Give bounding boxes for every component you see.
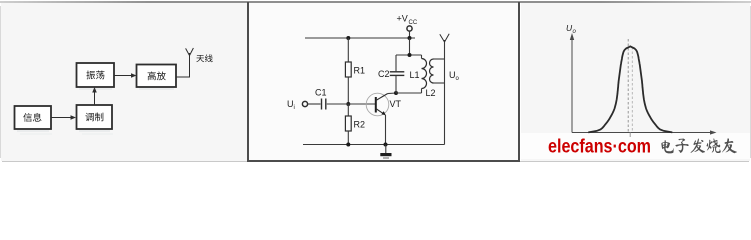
right panel background [521,2,750,161]
x axis [572,130,717,134]
arrow 振荡 to 高放 [114,73,137,78]
outer frame top border [0,1,751,3]
wire 高放 to antenna [176,53,190,77]
svg-text:C2: C2 [378,69,390,79]
outer frame left border [0,6,1,158]
wire Vcc rail to tank [409,38,411,55]
svg-text:VT: VT [390,99,402,109]
capacitor C1 [315,88,327,110]
watermark strip background [521,133,750,159]
svg-text:L2: L2 [426,88,436,98]
wire L2 top to antenna line [434,58,445,60]
tank bottom wire [396,92,422,94]
left panel background [1,2,247,161]
divider between middle and right panel [518,2,520,161]
inductor L2 [426,59,436,98]
svg-text:L1: L1 [410,70,420,80]
terminal +Vcc [407,26,412,31]
dashed marker line left [627,39,629,133]
label Ui [287,99,295,111]
block 振荡 [77,63,115,87]
resistor R2 [345,116,365,131]
block 信息 [15,106,52,129]
junction dot rail/emitter [384,143,388,147]
block 高放 [137,65,177,88]
middle panel background [249,2,518,161]
wire C2 to collector node [395,76,397,93]
wire Ui to C1 [308,103,321,105]
block 调制 [77,105,113,129]
svg-text:CC: CC [409,20,418,26]
transistor VT [366,93,401,116]
node tank top [408,53,412,57]
node base junction [346,102,350,106]
wire C1 to base node [327,103,349,105]
outer frame bottom border [2,161,749,162]
svg-text:+V: +V [397,14,408,24]
y axis [570,33,574,133]
ground symbol [380,145,391,159]
wire rail to R1 [347,38,349,62]
svg-text:R1: R1 [354,66,366,76]
arrow 调制 to 振荡 [92,87,97,105]
junction dot rail/Vcc [408,36,412,40]
dashed marker line right [631,47,633,133]
wire tank top to C2 [395,55,397,71]
junction dot rail/R1 [346,36,350,40]
wire R1 to base node [347,77,349,104]
tick below axis [629,133,631,138]
svg-text:o: o [573,29,577,35]
wire L2 bottom to antenna line [434,82,445,84]
svg-text:i: i [294,105,295,111]
antenna symbol (circuit) [440,34,449,42]
box shadow artifacts under blocks [17,89,174,131]
label Uo (graph) [566,23,577,35]
arrow 信息 to 调制 [52,115,77,120]
label +Vcc [397,14,418,27]
wire collector to tank node [388,92,397,95]
svg-text:o: o [456,76,460,82]
divider between left and middle panel [247,2,249,161]
outer frame right border [750,6,751,158]
antenna feed line [444,40,446,145]
ground rail [303,144,445,146]
top supply rail [305,37,415,39]
svg-text:R2: R2 [354,120,366,130]
svg-text:elecfans·com: elecfans·com [548,136,651,158]
wire base node to R2 [347,104,349,116]
label Uo (circuit) [449,70,460,82]
wire R2 to ground rail [347,131,349,145]
wire emitter down [385,115,387,145]
antenna symbol (left panel) [186,48,194,56]
label 天线 [196,55,204,62]
tank top wire [396,54,422,56]
node collector/tank junction [394,91,398,95]
svg-text:C1: C1 [315,88,327,98]
wire base node to transistor base [348,103,375,105]
watermark 电子发烧友 [661,140,673,153]
middle panel bottom border [247,160,520,162]
resonance curve [588,46,672,132]
capacitor C2 [378,69,404,79]
wire Vcc terminal to rail [409,31,411,38]
junction dot rail/R2 [346,143,350,147]
resistor R1 [345,62,365,77]
terminal Ui [302,101,307,106]
inductor L1 [410,55,427,93]
